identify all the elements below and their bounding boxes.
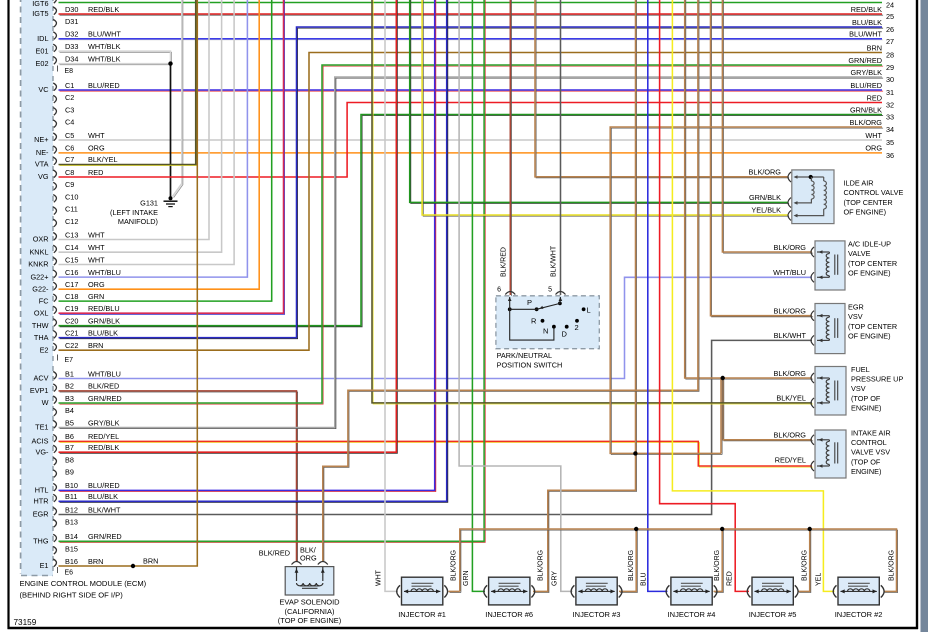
svg-text:RED/BLK: RED/BLK <box>851 5 882 14</box>
svg-text:G22+: G22+ <box>30 272 48 281</box>
svg-text:C6: C6 <box>65 144 74 153</box>
svg-text:C18: C18 <box>65 292 78 301</box>
svg-text:73159: 73159 <box>14 618 37 627</box>
svg-text:NE-: NE- <box>36 148 49 157</box>
svg-text:E2: E2 <box>40 345 49 354</box>
svg-text:BLK/ORG: BLK/ORG <box>774 369 807 378</box>
svg-text:(LEFT INTAKE: (LEFT INTAKE <box>110 208 158 217</box>
svg-text:INJECTOR #3: INJECTOR #3 <box>573 610 621 619</box>
svg-text:32: 32 <box>886 101 894 110</box>
svg-text:ILDE AIR: ILDE AIR <box>844 178 874 187</box>
svg-text:N: N <box>543 327 548 336</box>
svg-text:POSITION SWITCH: POSITION SWITCH <box>497 360 563 369</box>
svg-text:INJECTOR #6: INJECTOR #6 <box>485 610 533 619</box>
svg-text:G22-: G22- <box>32 284 49 293</box>
svg-text:BLU/WHT: BLU/WHT <box>88 30 121 39</box>
svg-text:WHT: WHT <box>865 131 882 140</box>
svg-text:C9: C9 <box>65 180 74 189</box>
svg-text:C4: C4 <box>65 118 74 127</box>
svg-text:C19: C19 <box>65 304 78 313</box>
svg-text:BLU/BLK: BLU/BLK <box>88 492 118 501</box>
svg-text:BRN: BRN <box>867 43 882 52</box>
svg-text:24: 24 <box>886 1 894 10</box>
svg-text:B6: B6 <box>65 432 74 441</box>
svg-text:INJECTOR #1: INJECTOR #1 <box>398 610 446 619</box>
svg-text:BLK/WHT: BLK/WHT <box>551 245 558 277</box>
svg-text:25: 25 <box>886 12 894 21</box>
svg-text:D: D <box>562 330 568 339</box>
svg-text:B10: B10 <box>65 481 78 490</box>
svg-text:B9: B9 <box>65 468 74 477</box>
svg-text:RED: RED <box>867 93 882 102</box>
svg-text:ACIS: ACIS <box>31 437 48 446</box>
svg-text:D34: D34 <box>65 54 78 63</box>
svg-text:VTA: VTA <box>35 159 49 168</box>
svg-text:BLK/YEL: BLK/YEL <box>88 155 118 164</box>
svg-text:CONTROL VALVE: CONTROL VALVE <box>844 188 904 197</box>
svg-text:W: W <box>42 398 49 407</box>
svg-text:P: P <box>527 298 532 307</box>
svg-text:B2: B2 <box>65 382 74 391</box>
svg-text:RED/YEL: RED/YEL <box>775 456 806 465</box>
svg-text:RED/BLU: RED/BLU <box>88 304 120 313</box>
svg-text:MANIFOLD): MANIFOLD) <box>118 217 158 226</box>
svg-text:FC: FC <box>39 296 49 305</box>
svg-text:B7: B7 <box>65 443 74 452</box>
svg-text:C11: C11 <box>65 205 78 214</box>
svg-text:5: 5 <box>548 287 552 294</box>
svg-text:A/C IDLE-UP: A/C IDLE-UP <box>848 240 891 249</box>
svg-text:BRN: BRN <box>88 341 103 350</box>
svg-text:BRN: BRN <box>88 557 103 566</box>
svg-text:E6: E6 <box>65 570 74 577</box>
svg-text:(TOP OF ENGINE): (TOP OF ENGINE) <box>278 616 342 625</box>
svg-text:E1: E1 <box>40 561 49 570</box>
svg-text:C22: C22 <box>65 341 78 350</box>
svg-text:(CALIFORNIA): (CALIFORNIA) <box>284 607 335 616</box>
svg-text:BLK/ORG: BLK/ORG <box>538 550 545 581</box>
svg-text:BLK/YEL: BLK/YEL <box>776 394 806 403</box>
svg-text:OF ENGINE): OF ENGINE) <box>848 332 891 341</box>
svg-text:GRN: GRN <box>88 292 104 301</box>
svg-text:YEL: YEL <box>816 573 823 586</box>
svg-text:THA: THA <box>34 333 49 342</box>
svg-text:BLK/ORG: BLK/ORG <box>850 118 883 127</box>
svg-text:BLU/RED: BLU/RED <box>850 81 882 90</box>
svg-text:BLU/BLK: BLU/BLK <box>88 328 118 337</box>
svg-text:EGR: EGR <box>33 510 49 519</box>
svg-text:D30: D30 <box>65 5 78 14</box>
svg-text:29: 29 <box>886 63 894 72</box>
svg-text:KNKL: KNKL <box>29 247 48 256</box>
svg-text:D32: D32 <box>65 30 78 39</box>
svg-text:26: 26 <box>886 25 894 34</box>
svg-text:PARK/NEUTRAL: PARK/NEUTRAL <box>497 351 552 360</box>
svg-text:(TOP OF: (TOP OF <box>851 394 881 403</box>
svg-text:VG: VG <box>38 172 49 181</box>
svg-text:OF ENGINE): OF ENGINE) <box>844 208 887 217</box>
svg-text:BLK/ORG: BLK/ORG <box>749 168 782 177</box>
svg-text:RED/BLK: RED/BLK <box>88 443 119 452</box>
svg-text:E02: E02 <box>36 59 49 68</box>
svg-text:30: 30 <box>886 75 894 84</box>
svg-text:VG-: VG- <box>36 447 50 456</box>
svg-text:VALVE: VALVE <box>848 249 871 258</box>
svg-text:RED: RED <box>727 571 734 586</box>
svg-text:ACV: ACV <box>33 374 48 383</box>
svg-text:BLU: BLU <box>641 572 648 586</box>
svg-text:B13: B13 <box>65 517 78 526</box>
svg-text:IDL: IDL <box>37 34 48 43</box>
svg-text:OXL: OXL <box>34 308 49 317</box>
svg-text:FUEL: FUEL <box>851 365 870 374</box>
svg-text:C12: C12 <box>65 217 78 226</box>
svg-text:BLK/ORG: BLK/ORG <box>774 243 807 252</box>
svg-text:ENGINE CONTROL MODULE (ECM): ENGINE CONTROL MODULE (ECM) <box>20 579 147 588</box>
svg-text:G131: G131 <box>140 199 158 208</box>
svg-text:BLK/ORG: BLK/ORG <box>714 550 721 581</box>
svg-text:GRY: GRY <box>552 571 559 586</box>
svg-text:C3: C3 <box>65 105 74 114</box>
svg-text:D31: D31 <box>65 17 78 26</box>
svg-text:B4: B4 <box>65 406 74 415</box>
svg-text:BLU/WHT: BLU/WHT <box>849 30 882 39</box>
svg-text:ENGINE): ENGINE) <box>851 404 881 413</box>
svg-text:B16: B16 <box>65 557 78 566</box>
svg-text:C5: C5 <box>65 131 74 140</box>
svg-text:PRESSURE UP: PRESSURE UP <box>851 375 903 384</box>
svg-text:C10: C10 <box>65 192 78 201</box>
svg-text:ORG: ORG <box>865 144 882 153</box>
svg-text:C17: C17 <box>65 280 78 289</box>
svg-text:EVP1: EVP1 <box>30 386 49 395</box>
svg-text:BLK/ORG: BLK/ORG <box>802 550 809 581</box>
svg-text:C2: C2 <box>65 93 74 102</box>
svg-text:2: 2 <box>575 323 579 332</box>
svg-text:INJECTOR #5: INJECTOR #5 <box>749 610 797 619</box>
svg-text:BLU/RED: BLU/RED <box>88 481 120 490</box>
svg-text:B1: B1 <box>65 369 74 378</box>
svg-text:E01: E01 <box>36 46 49 55</box>
svg-text:BLK/ORG: BLK/ORG <box>451 550 458 581</box>
svg-text:BLU/BLK: BLU/BLK <box>852 18 882 27</box>
svg-text:VSV: VSV <box>851 384 866 393</box>
svg-text:GRN: GRN <box>463 570 470 586</box>
svg-text:D33: D33 <box>65 42 78 51</box>
svg-text:GRN/BLK: GRN/BLK <box>749 193 781 202</box>
svg-text:BLK/ORG: BLK/ORG <box>774 307 807 316</box>
svg-text:B11: B11 <box>65 492 77 501</box>
svg-text:OXR: OXR <box>33 235 49 244</box>
svg-text:B5: B5 <box>65 418 74 427</box>
svg-text:NE+: NE+ <box>34 135 48 144</box>
svg-text:33: 33 <box>886 113 894 122</box>
svg-text:WHT/BLK: WHT/BLK <box>88 54 121 63</box>
svg-text:C20: C20 <box>65 317 78 326</box>
svg-text:GRN/BLK: GRN/BLK <box>88 317 120 326</box>
svg-text:VSV: VSV <box>848 312 863 321</box>
svg-text:34: 34 <box>886 125 894 134</box>
svg-text:VC: VC <box>38 85 48 94</box>
svg-text:BLK/WHT: BLK/WHT <box>774 331 807 340</box>
svg-text:WHT: WHT <box>88 230 105 239</box>
svg-text:(BEHIND RIGHT SIDE OF I/P): (BEHIND RIGHT SIDE OF I/P) <box>20 590 124 599</box>
svg-text:BLK/WHT: BLK/WHT <box>88 505 121 514</box>
svg-text:WHT/BLU: WHT/BLU <box>773 268 806 277</box>
svg-text:C1: C1 <box>65 81 74 90</box>
svg-text:GRN/RED: GRN/RED <box>88 532 122 541</box>
svg-text:INJECTOR #2: INJECTOR #2 <box>835 610 883 619</box>
svg-text:TE1: TE1 <box>35 423 48 432</box>
svg-text:28: 28 <box>886 51 894 60</box>
svg-text:GRN/BLK: GRN/BLK <box>850 105 882 114</box>
svg-text:WHT: WHT <box>88 255 105 264</box>
svg-text:B8: B8 <box>65 455 74 464</box>
svg-text:B3: B3 <box>65 394 74 403</box>
svg-text:27: 27 <box>886 37 894 46</box>
svg-text:ORG: ORG <box>88 280 105 289</box>
svg-text:WHT/BLU: WHT/BLU <box>88 268 121 277</box>
svg-text:KNKR: KNKR <box>28 260 48 269</box>
svg-text:ORG: ORG <box>300 554 317 563</box>
svg-text:E7: E7 <box>65 357 74 364</box>
svg-text:C8: C8 <box>65 168 74 177</box>
svg-text:BLK/ORG: BLK/ORG <box>774 431 807 440</box>
svg-text:C16: C16 <box>65 268 78 277</box>
svg-text:C7: C7 <box>65 155 74 164</box>
svg-text:BLK/RED: BLK/RED <box>88 382 119 391</box>
svg-text:WHT: WHT <box>88 131 105 140</box>
svg-text:VALVE VSV: VALVE VSV <box>851 448 890 457</box>
svg-text:OF ENGINE): OF ENGINE) <box>848 269 891 278</box>
svg-text:HTL: HTL <box>35 486 49 495</box>
svg-text:IGT6: IGT6 <box>32 0 48 8</box>
svg-text:WHT/BLU: WHT/BLU <box>88 369 121 378</box>
svg-text:B12: B12 <box>65 505 78 514</box>
svg-text:31: 31 <box>886 88 894 97</box>
svg-text:INJECTOR #4: INJECTOR #4 <box>668 610 716 619</box>
svg-text:INTAKE AIR: INTAKE AIR <box>851 428 891 437</box>
svg-text:BLK/ORG: BLK/ORG <box>889 550 896 581</box>
svg-text:GRN/RED: GRN/RED <box>88 394 122 403</box>
svg-text:B15: B15 <box>65 544 78 553</box>
svg-text:YEL/BLK: YEL/BLK <box>751 206 781 215</box>
svg-text:(TOP OF: (TOP OF <box>851 457 881 466</box>
svg-text:THG: THG <box>33 537 49 546</box>
svg-text:BLU/RED: BLU/RED <box>88 81 120 90</box>
svg-text:RED/YEL: RED/YEL <box>88 432 119 441</box>
svg-text:B14: B14 <box>65 532 78 541</box>
svg-text:6: 6 <box>497 287 501 294</box>
svg-text:BLK/RED: BLK/RED <box>501 247 508 277</box>
svg-text:RED/BLK: RED/BLK <box>88 5 119 14</box>
svg-text:GRY/BLK: GRY/BLK <box>851 68 883 77</box>
svg-text:BRN: BRN <box>143 557 158 566</box>
svg-text:EGR: EGR <box>848 303 864 312</box>
svg-text:R: R <box>531 317 537 326</box>
svg-text:BLK/RED: BLK/RED <box>259 548 290 557</box>
svg-text:C14: C14 <box>65 243 78 252</box>
svg-text:(TOP CENTER: (TOP CENTER <box>848 259 897 268</box>
svg-text:C13: C13 <box>65 230 78 239</box>
svg-text:ENGINE): ENGINE) <box>851 467 881 476</box>
svg-text:CONTROL: CONTROL <box>851 438 887 447</box>
svg-text:(TOP CENTER: (TOP CENTER <box>844 198 893 207</box>
svg-text:35: 35 <box>886 138 894 147</box>
svg-text:WHT: WHT <box>376 569 383 586</box>
svg-text:THW: THW <box>32 321 49 330</box>
svg-text:WHT: WHT <box>88 243 105 252</box>
svg-text:BLK/ORG: BLK/ORG <box>628 550 635 581</box>
svg-text:RED: RED <box>88 168 103 177</box>
svg-text:ORG: ORG <box>88 144 105 153</box>
svg-text:GRN/RED: GRN/RED <box>848 56 882 65</box>
svg-text:36: 36 <box>886 151 894 160</box>
svg-text:L: L <box>587 306 591 315</box>
svg-text:IGT5: IGT5 <box>32 9 48 18</box>
svg-text:C21: C21 <box>65 328 78 337</box>
svg-text:GRY/BLK: GRY/BLK <box>88 418 120 427</box>
svg-text:HTR: HTR <box>34 497 49 506</box>
svg-text:EVAP SOLENOID: EVAP SOLENOID <box>279 598 340 607</box>
svg-text:E8: E8 <box>65 68 74 75</box>
svg-text:(TOP CENTER: (TOP CENTER <box>848 322 897 331</box>
svg-text:WHT/BLK: WHT/BLK <box>88 42 121 51</box>
svg-text:C15: C15 <box>65 255 78 264</box>
